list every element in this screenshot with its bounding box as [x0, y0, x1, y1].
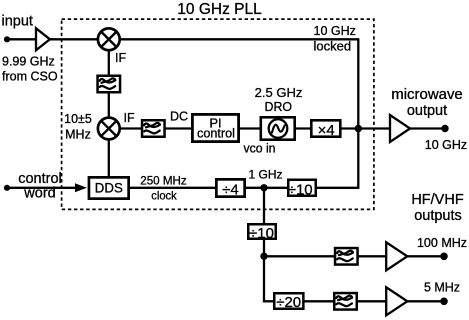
svg-text:locked: locked	[314, 38, 352, 53]
svg-text:outputs: outputs	[414, 208, 462, 224]
svg-text:10±5: 10±5	[64, 112, 92, 126]
svg-text:÷20: ÷20	[276, 294, 301, 311]
svg-text:250 MHz: 250 MHz	[140, 173, 187, 187]
svg-text:÷10: ÷10	[288, 182, 313, 199]
svg-text:MHz: MHz	[65, 127, 91, 141]
svg-text:5 MHz: 5 MHz	[424, 281, 460, 295]
svg-text:10 GHz: 10 GHz	[314, 24, 356, 38]
svg-text:microwave: microwave	[391, 87, 463, 103]
svg-text:÷4: ÷4	[222, 182, 239, 199]
svg-text:9.99 GHz: 9.99 GHz	[2, 54, 55, 68]
svg-text:2.5 GHz: 2.5 GHz	[255, 85, 303, 100]
svg-text:1 GHz: 1 GHz	[248, 168, 282, 182]
svg-text:input: input	[2, 14, 33, 30]
svg-text:DDS: DDS	[95, 180, 123, 196]
svg-text:100 MHz: 100 MHz	[417, 236, 467, 250]
svg-text:÷10: ÷10	[249, 225, 274, 242]
svg-text:10 GHz PLL: 10 GHz PLL	[177, 1, 262, 18]
svg-text:IF: IF	[115, 51, 126, 65]
svg-text:DC: DC	[170, 109, 188, 123]
svg-text:×4: ×4	[318, 122, 335, 139]
svg-text:IF: IF	[124, 111, 135, 125]
svg-text:10 GHz: 10 GHz	[425, 138, 467, 152]
svg-text:control: control	[197, 125, 235, 140]
svg-text:DRO: DRO	[265, 99, 293, 114]
svg-text:from CSO: from CSO	[2, 69, 58, 83]
svg-text:word: word	[23, 186, 55, 202]
svg-text:HF/VHF: HF/VHF	[411, 192, 464, 208]
svg-text:vco in: vco in	[244, 142, 276, 156]
svg-text:output: output	[407, 103, 447, 119]
svg-text:clock: clock	[151, 188, 177, 202]
